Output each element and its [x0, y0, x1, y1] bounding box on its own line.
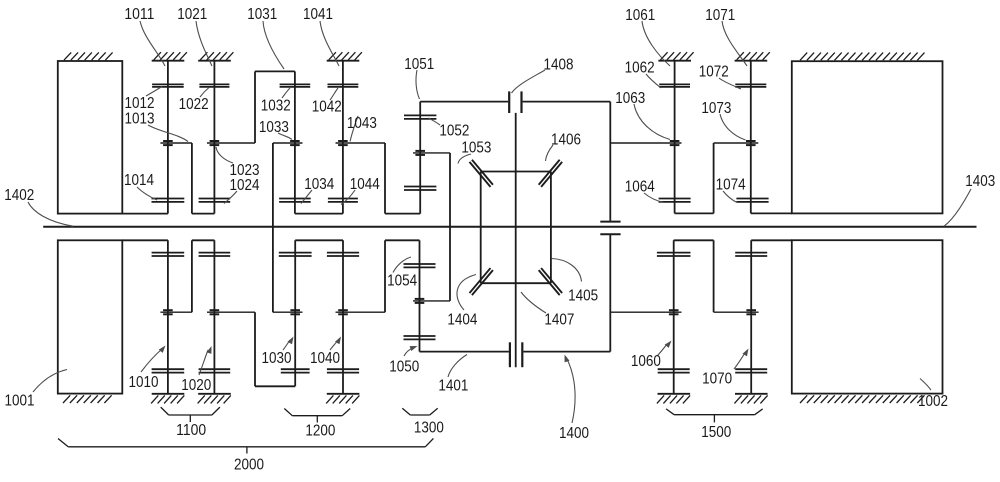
- leader 1073: [720, 114, 746, 140]
- label 1064: [625, 179, 655, 196]
- label 1061: [625, 7, 655, 24]
- clutch 1401 plates: [510, 342, 522, 367]
- wire mesh 1013 link: [160, 142, 192, 144]
- brace 1100: [161, 407, 220, 422]
- label 1042: [312, 99, 342, 116]
- leader 1406: [546, 145, 554, 161]
- leader 1051: [416, 70, 420, 99]
- label 1060: [631, 353, 661, 370]
- housing box 1001 top-left with ceiling hatch: [58, 52, 123, 213]
- label 1020: [181, 377, 211, 394]
- support hatch shaft 1041: [327, 52, 362, 61]
- label 1021: [177, 6, 207, 23]
- label 1031: [247, 6, 277, 23]
- label 1002: [918, 393, 948, 410]
- svg-text:1032: 1032: [261, 97, 291, 114]
- leader 1044: [341, 190, 355, 205]
- label 1404: [447, 311, 477, 328]
- label 1072: [699, 64, 729, 81]
- wire output line 1401 left segment: [420, 351, 509, 353]
- gear 1052: [404, 115, 436, 119]
- svg-text:1408: 1408: [544, 57, 574, 74]
- svg-text:1020: 1020: [181, 377, 211, 394]
- gear mesh 1060: [669, 310, 679, 314]
- wire mesh 1043 link to riser: [336, 142, 386, 144]
- label 1030: [262, 350, 292, 367]
- wire shaft 1030-1040 top bar: [295, 239, 343, 241]
- svg-text:1400: 1400: [559, 425, 589, 442]
- label 1401: [438, 377, 468, 394]
- label 1403: [965, 173, 995, 190]
- svg-text:1200: 1200: [305, 423, 335, 440]
- gear on shaft 1010 upper: [152, 253, 185, 256]
- svg-text:1054: 1054: [387, 272, 417, 289]
- gear on shaft 1040 upper: [327, 253, 359, 256]
- gear 1032: [280, 84, 311, 87]
- svg-text:1051: 1051: [404, 56, 434, 73]
- leader 1070 with arrow: [734, 349, 749, 370]
- svg-text:1021: 1021: [177, 6, 207, 23]
- leader 1033: [278, 133, 292, 140]
- wire output line 1401 right segment: [523, 351, 610, 353]
- gear mesh 1043: [338, 141, 348, 145]
- leader 1052: [429, 118, 441, 125]
- label 2000: [234, 457, 264, 474]
- gear mesh on shaft 1054: [415, 299, 425, 303]
- wire mesh 1010 link: [160, 311, 192, 313]
- shaft 1071: [750, 61, 752, 214]
- bevel gear 1053 upper-left: [469, 160, 492, 187]
- gear 1042: [328, 84, 359, 87]
- leader 1404: [457, 275, 476, 311]
- svg-text:1012: 1012: [125, 95, 155, 112]
- svg-text:1040: 1040: [310, 350, 340, 367]
- wire top box bottom edge extension to shaft 1011: [122, 213, 168, 215]
- label 1073: [701, 100, 731, 117]
- wire mesh 1063 link: [610, 142, 681, 144]
- svg-text:1500: 1500: [701, 424, 731, 441]
- ground hatch shaft 1060: [657, 394, 690, 404]
- gear mesh on shaft 1010: [163, 310, 173, 314]
- wire bracket 1010-1020: [192, 240, 215, 312]
- ground hatch shaft 1020: [198, 394, 231, 404]
- gear mesh 1073: [746, 141, 756, 145]
- gear 1022: [199, 84, 229, 87]
- support hatch shaft 1061: [658, 52, 693, 61]
- gear mesh on shaft 1020: [210, 310, 220, 314]
- label 1044: [350, 176, 380, 193]
- gear 1050 on shaft 1054 lower: [404, 336, 436, 339]
- shaft 1060: [673, 240, 675, 393]
- svg-text:1011: 1011: [124, 6, 154, 23]
- brace 1200: [284, 409, 350, 423]
- leader 1014: [137, 187, 157, 200]
- support hatch shaft 1011: [152, 52, 187, 61]
- label 1071: [705, 7, 735, 24]
- gear on shaft 1020 upper: [199, 253, 231, 256]
- label 1062: [625, 60, 655, 77]
- svg-text:1033: 1033: [259, 119, 289, 136]
- wire bracket 1061 bottom to mesh 1073: [675, 143, 759, 213]
- gear on shaft 1070 lower: [735, 369, 767, 372]
- svg-text:1407: 1407: [544, 312, 574, 329]
- svg-text:1071: 1071: [705, 7, 735, 24]
- wire mesh 1023 link to riser: [207, 142, 255, 144]
- wire mesh 1030 link to long riser: [273, 311, 303, 313]
- gear 1072: [735, 84, 766, 87]
- svg-text:1063: 1063: [615, 90, 645, 107]
- node riser at 610 lower: [609, 234, 611, 351]
- label 1013: [125, 111, 155, 128]
- gear 1064: [659, 199, 691, 202]
- label 1400: [559, 425, 589, 442]
- node riser 1053-1054: [449, 153, 451, 301]
- gear on shaft 1040 lower: [327, 369, 359, 372]
- gear mesh 1070: [746, 310, 756, 314]
- svg-text:1300: 1300: [414, 420, 444, 437]
- shaft 1030: [294, 240, 296, 386]
- leader 1403: [944, 189, 971, 226]
- svg-text:1050: 1050: [389, 358, 419, 375]
- label 1200: [305, 423, 335, 440]
- support hatch shaft 1071: [735, 52, 770, 61]
- leader 1021: [196, 21, 212, 66]
- wire input line left segment: [420, 101, 508, 103]
- shaft 1061: [674, 61, 676, 214]
- ground hatch shaft 1070: [734, 394, 767, 404]
- wire bracket 1040 mesh to shaft 1054 top: [385, 240, 420, 312]
- label 1033: [259, 119, 289, 136]
- label 1023: [230, 162, 260, 179]
- gear 1074: [736, 199, 768, 202]
- leader 1074: [723, 191, 737, 203]
- leader 1072: [719, 78, 741, 89]
- leader 1053: [458, 154, 471, 164]
- leader 1060 with arrow: [657, 341, 672, 357]
- gear mesh 1040: [338, 310, 348, 314]
- shaft 1402/1403 main axis line: [43, 226, 976, 228]
- label 1024: [230, 177, 260, 194]
- label 1053: [461, 139, 491, 156]
- gear 1014: [152, 199, 185, 202]
- wire bracket 1043 to shaft 1051 bottom: [385, 143, 420, 214]
- leader 1002: [920, 379, 931, 391]
- wire mesh 1040 link to riser: [336, 311, 386, 313]
- svg-text:1001: 1001: [5, 392, 35, 409]
- gear on shaft 1070 upper: [735, 253, 767, 256]
- gear mesh 1033: [290, 141, 300, 145]
- ground hatch shaft 1010: [151, 394, 184, 404]
- label 1300: [414, 420, 444, 437]
- svg-text:1002: 1002: [918, 393, 948, 410]
- svg-text:2000: 2000: [234, 457, 264, 474]
- svg-text:1043: 1043: [347, 115, 377, 132]
- label 1408: [544, 57, 574, 74]
- svg-text:1064: 1064: [625, 179, 655, 196]
- label 1041: [303, 6, 333, 23]
- leader 1024: [224, 191, 237, 204]
- leader 1405: [552, 259, 582, 282]
- svg-text:1062: 1062: [625, 60, 655, 77]
- leader 1400 with arrow: [565, 355, 576, 424]
- housing box top-right with ceiling hatch: [792, 53, 943, 214]
- leader 1071: [722, 21, 747, 66]
- leader 1063: [634, 104, 670, 140]
- wire mesh 1033 link to long riser: [273, 142, 303, 144]
- gear on shaft 1030 lower: [281, 369, 310, 372]
- label 1074: [716, 177, 746, 194]
- label 1034: [304, 176, 334, 193]
- gear 1054: [404, 264, 436, 267]
- svg-text:1044: 1044: [350, 176, 380, 193]
- leader 1407: [521, 292, 546, 313]
- gear on shaft 1030 upper: [279, 253, 312, 256]
- svg-text:1100: 1100: [176, 422, 206, 439]
- label 1040: [310, 350, 340, 367]
- gear 1034: [279, 199, 311, 202]
- wire bracket 1013-1021: [192, 143, 215, 214]
- label 1407: [544, 312, 574, 329]
- leader 1001: [33, 370, 67, 393]
- label 1012: [125, 95, 155, 112]
- shaft 1011: [167, 61, 169, 214]
- bevel gear 1406 upper-right: [539, 160, 562, 187]
- leader 1064: [644, 193, 664, 203]
- wire bottom-right box top edge extension to shaft 1070: [751, 239, 792, 241]
- bevel gear 1404 lower-left: [469, 268, 492, 295]
- leader 1030 with arrow: [283, 337, 294, 351]
- label 1051: [404, 56, 434, 73]
- wire shaft 1031-1041 bottom bar: [295, 213, 343, 215]
- svg-text:1030: 1030: [262, 350, 292, 367]
- svg-text:1060: 1060: [631, 353, 661, 370]
- wire bottom box top edge extension to shaft 1010: [122, 239, 168, 241]
- shaft 1021: [213, 61, 215, 214]
- leader 1023: [216, 147, 233, 163]
- label 1052: [439, 123, 469, 140]
- wire hanger bracket 1023-1031: [255, 71, 295, 143]
- planet carrier frame: [481, 172, 551, 284]
- gear mesh 1063: [670, 141, 680, 145]
- clutch plate above axis: [600, 221, 620, 223]
- wire input line right segment: [523, 101, 611, 103]
- label 1054: [387, 272, 417, 289]
- svg-text:1070: 1070: [702, 370, 732, 387]
- svg-text:1401: 1401: [438, 377, 468, 394]
- shaft 1051: [419, 102, 421, 214]
- label 1406: [551, 131, 581, 148]
- shaft 1054 column: [419, 240, 421, 351]
- label 1500: [701, 424, 731, 441]
- leader 1062: [646, 74, 661, 88]
- clutch 1408 plates: [509, 91, 521, 113]
- leader 1020 with arrow: [199, 346, 212, 375]
- gear 1044: [328, 199, 358, 202]
- gear on shaft 1010 lower: [152, 369, 185, 372]
- node riser at 610 upper: [609, 102, 611, 221]
- gear on shaft 1060 upper: [657, 253, 691, 256]
- leader 1041: [320, 21, 339, 66]
- svg-text:1024: 1024: [230, 177, 260, 194]
- wire top-right box bottom edge extension to shaft 1071: [751, 212, 792, 214]
- leader 1408: [512, 70, 546, 93]
- svg-text:1042: 1042: [312, 99, 342, 116]
- wire mesh 1054 link to riser: [413, 300, 450, 302]
- gear on shaft 1020 lower: [199, 369, 231, 372]
- shaft 1031: [294, 71, 296, 213]
- brace 1500: [666, 409, 763, 423]
- leader 1401: [448, 355, 467, 378]
- svg-text:1022: 1022: [179, 96, 209, 113]
- leader 1061: [642, 21, 670, 66]
- leader 1054: [393, 257, 411, 273]
- leader 1032: [282, 88, 290, 98]
- label 1011: [124, 6, 154, 23]
- housing box 1002 bottom-right with floor hatch: [792, 240, 943, 403]
- label 1001: [5, 392, 35, 409]
- gear 1062: [659, 84, 690, 87]
- svg-text:1053: 1053: [461, 139, 491, 156]
- shaft 1020: [213, 240, 215, 393]
- svg-text:1052: 1052: [439, 123, 469, 140]
- label 1014: [124, 172, 154, 189]
- label 1050: [389, 358, 419, 375]
- label 1070: [702, 370, 732, 387]
- svg-text:1031: 1031: [247, 6, 277, 23]
- svg-text:1402: 1402: [4, 187, 34, 204]
- leader 1040 with arrow: [330, 337, 341, 351]
- leader 1010 with arrow: [141, 346, 166, 373]
- label 1100: [176, 422, 206, 439]
- svg-text:1405: 1405: [568, 287, 598, 304]
- label 1022: [179, 96, 209, 113]
- wire bracket 1060 top to mesh 1070: [674, 240, 759, 312]
- svg-text:1013: 1013: [125, 111, 155, 128]
- wire mesh 1053 link to riser: [413, 152, 450, 154]
- leader 1022: [200, 88, 209, 98]
- shaft 1040: [342, 240, 344, 393]
- wire mesh 1060 link: [610, 311, 681, 313]
- gear on shaft 1051 lower: [404, 187, 436, 191]
- node long riser 1033-1030: [272, 143, 274, 312]
- label 1402: [4, 187, 34, 204]
- label 1043: [347, 115, 377, 132]
- support hatch shaft 1021: [198, 52, 233, 61]
- svg-text:1404: 1404: [447, 311, 477, 328]
- label 1405: [568, 287, 598, 304]
- svg-text:1073: 1073: [701, 100, 731, 117]
- brace 1300: [402, 408, 437, 415]
- leader 1042: [330, 88, 338, 100]
- svg-text:1034: 1034: [304, 176, 334, 193]
- leader 1012: [146, 87, 162, 97]
- gear mesh 1013: [163, 141, 173, 145]
- center shaft 1407: [515, 113, 517, 367]
- brace 2000: [58, 438, 433, 453]
- label 1063: [615, 90, 645, 107]
- svg-text:1041: 1041: [303, 6, 333, 23]
- gear 1024: [199, 199, 231, 202]
- svg-text:1074: 1074: [716, 177, 746, 194]
- shaft 1041: [342, 61, 344, 214]
- shaft 1070: [750, 240, 752, 393]
- leader 1011: [140, 21, 165, 66]
- bevel gear 1405 lower-right: [539, 268, 562, 295]
- gear on shaft 1060 lower: [658, 369, 690, 372]
- ground hatch shaft 1040: [326, 394, 359, 404]
- label 1010: [129, 374, 159, 391]
- leader 1043: [350, 116, 358, 142]
- leader 1013: [148, 125, 188, 142]
- housing box 1001 bottom-left with floor hatch: [58, 240, 123, 403]
- svg-text:1406: 1406: [551, 131, 581, 148]
- gear 1012: [152, 84, 184, 87]
- leader 1050 with arrow: [404, 346, 418, 356]
- leader 1402: [28, 202, 73, 226]
- svg-text:1014: 1014: [124, 172, 154, 189]
- svg-text:1403: 1403: [965, 173, 995, 190]
- gear mesh 1053 on shaft 1051: [415, 151, 425, 155]
- svg-text:1010: 1010: [129, 374, 159, 391]
- label 1032: [261, 97, 291, 114]
- wire mesh 1020 link to riser: [207, 311, 255, 313]
- svg-text:1072: 1072: [699, 64, 729, 81]
- gear mesh 1030: [290, 310, 300, 314]
- gear mesh 1023: [210, 141, 220, 145]
- leader 1034: [301, 190, 312, 204]
- wire bracket 1020 mesh to shaft 1030 bottom: [255, 312, 295, 386]
- leader 1031: [263, 21, 284, 69]
- shaft 1010: [167, 240, 169, 393]
- svg-text:1061: 1061: [625, 7, 655, 24]
- clutch plate below axis: [600, 233, 620, 235]
